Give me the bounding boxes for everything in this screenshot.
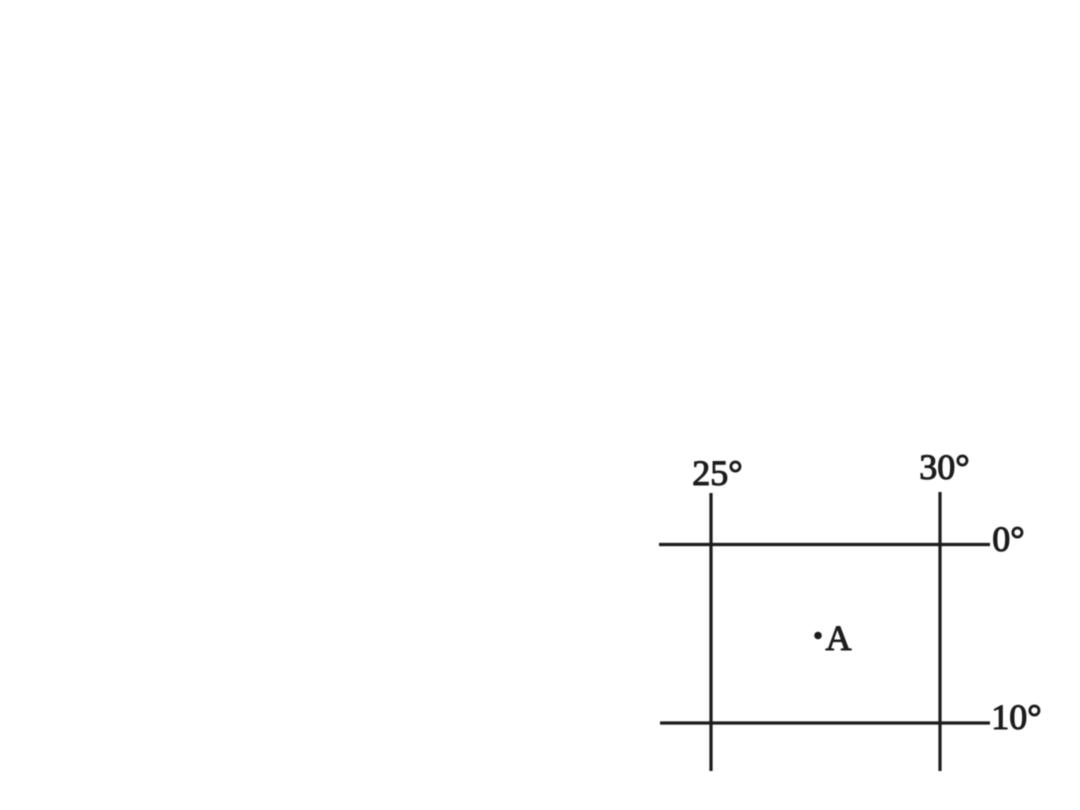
svg-text:25°: 25° xyxy=(692,453,742,493)
meridian 25° (left vertical line) xyxy=(709,493,712,771)
svg-text:A: A xyxy=(826,618,852,658)
meridian 30° (right vertical line) xyxy=(938,492,941,771)
svg-text:10°: 10° xyxy=(991,697,1041,737)
point A marker dot xyxy=(814,632,822,640)
svg-text:0°: 0° xyxy=(992,519,1024,559)
parallel 0° (top horizontal line) xyxy=(659,543,990,546)
parallel 10° (bottom horizontal line) xyxy=(660,721,990,724)
svg-text:30°: 30° xyxy=(919,447,969,487)
